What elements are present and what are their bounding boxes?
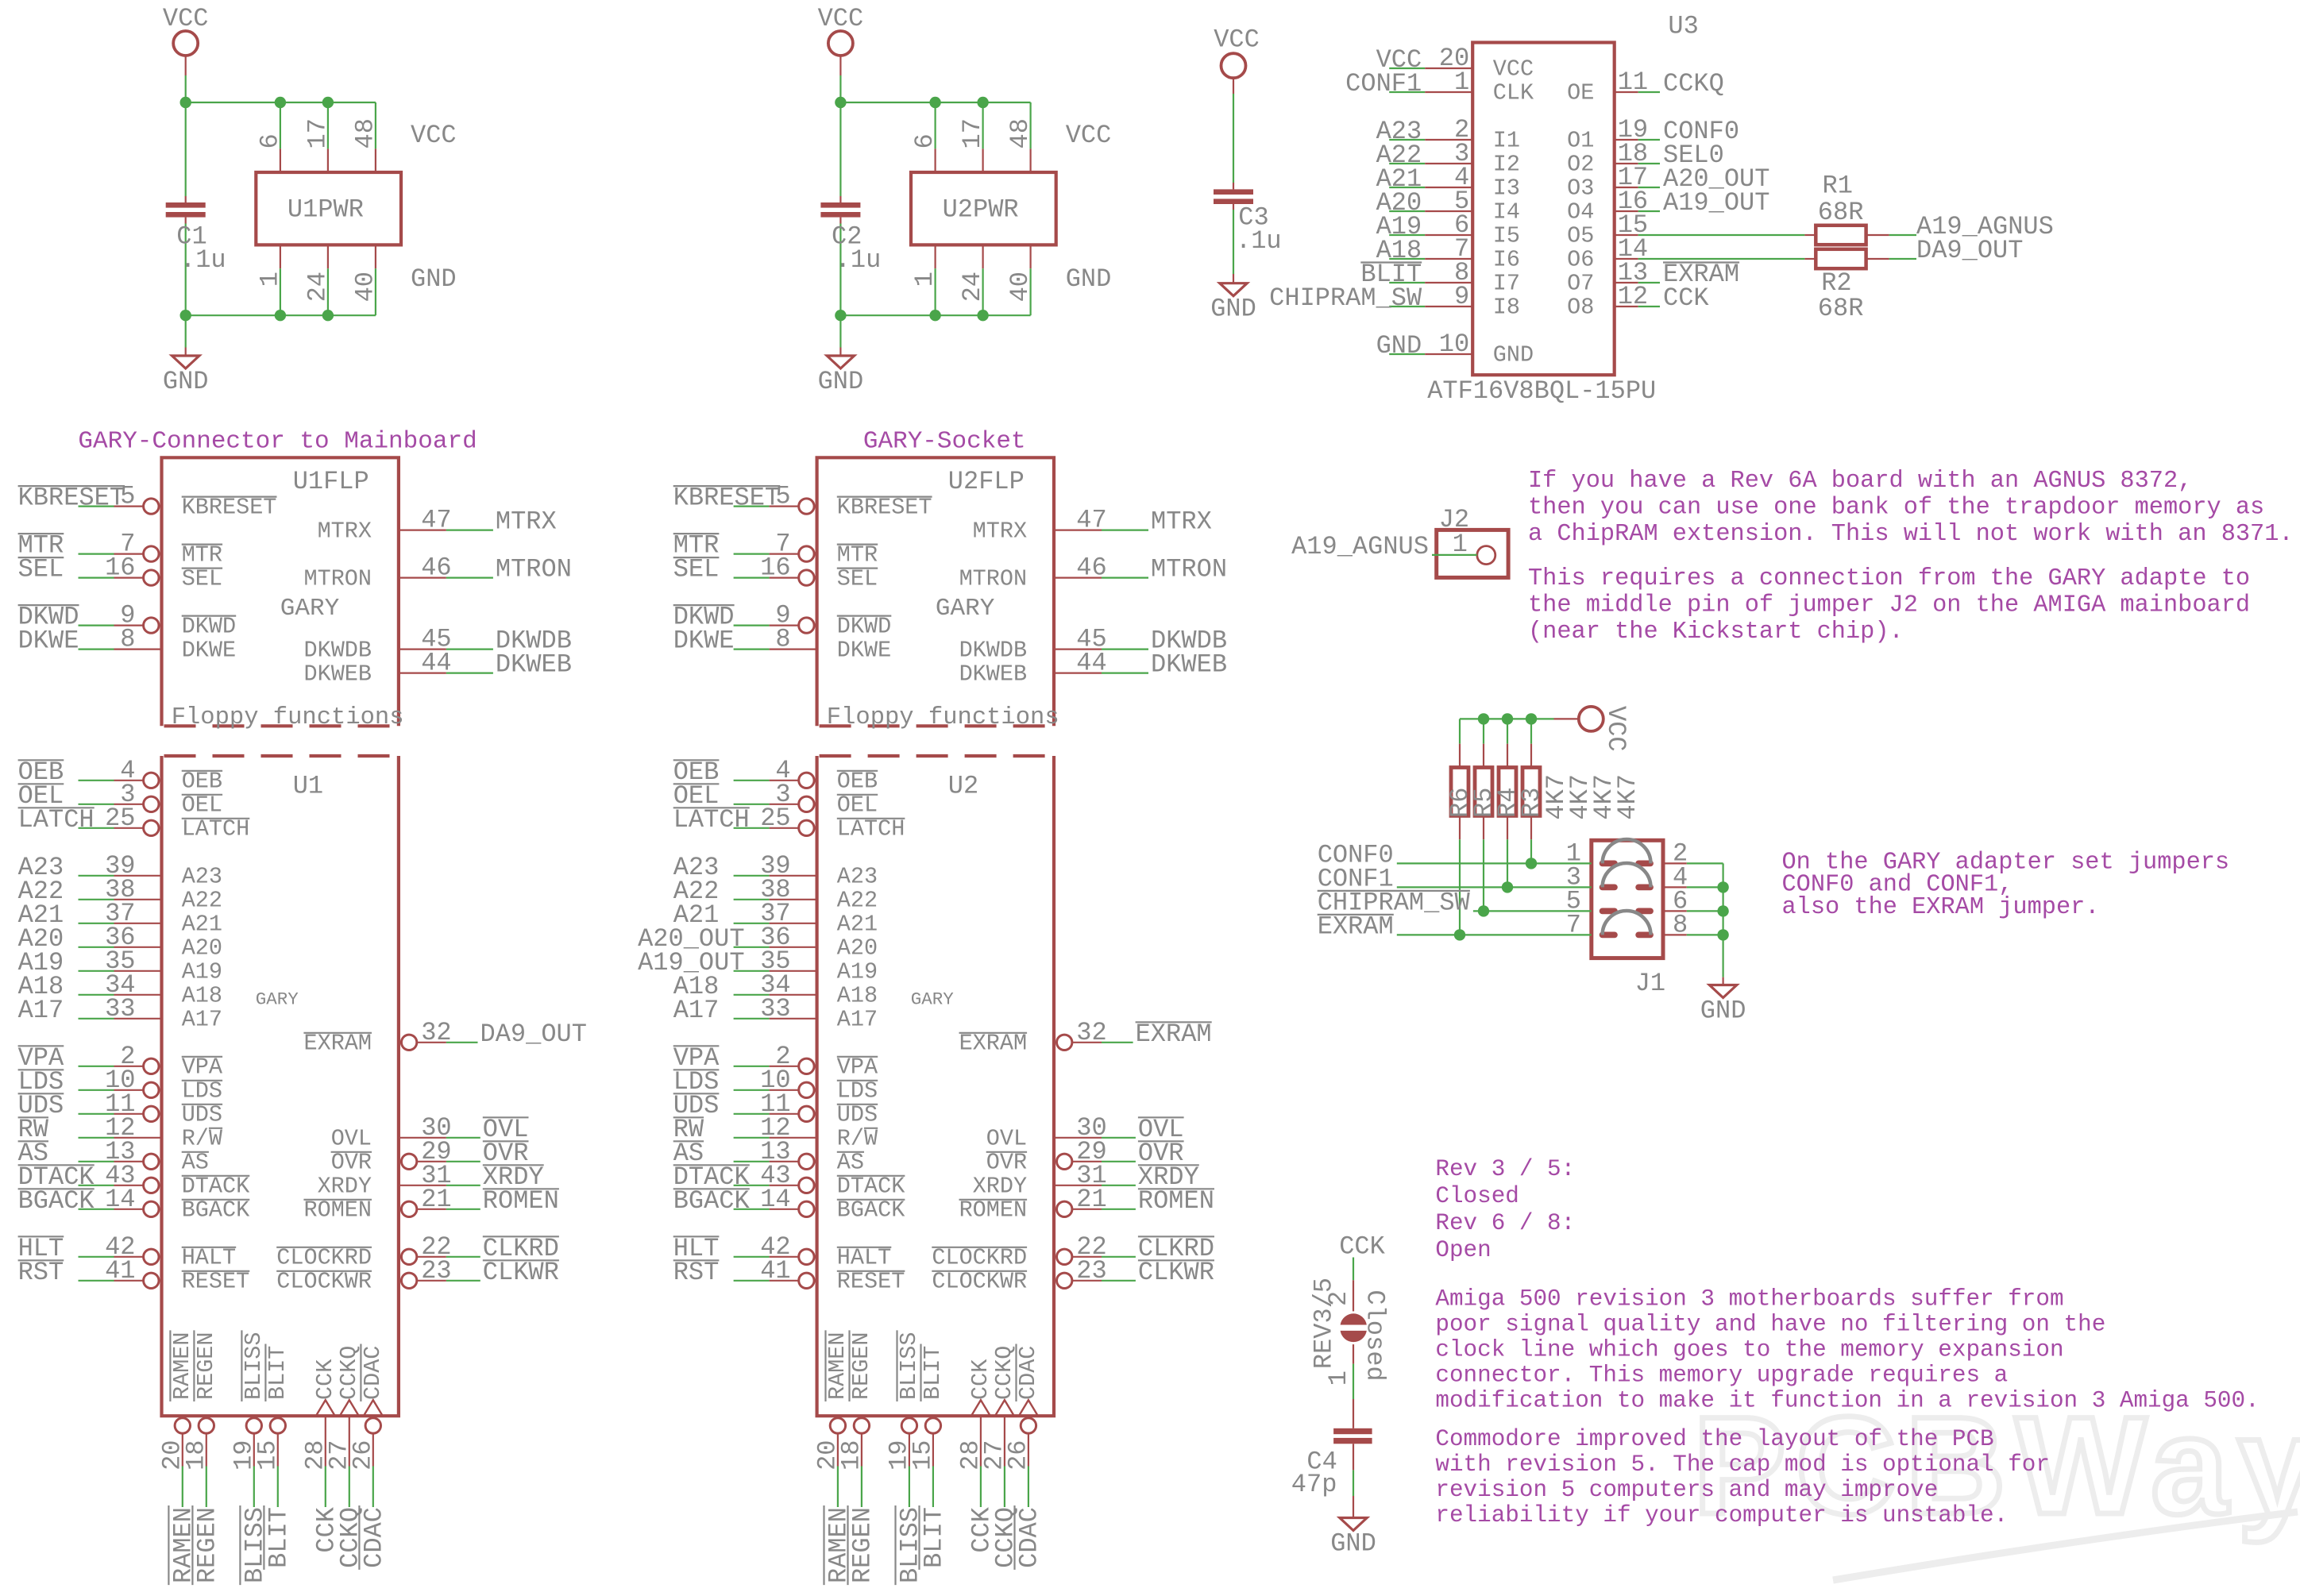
- svg-text:a ChipRAM extension. This will: a ChipRAM extension. This will not work …: [1528, 521, 2294, 548]
- svg-text:This requires a connection fro: This requires a connection from the GARY…: [1528, 565, 2250, 592]
- svg-text:GND: GND: [1376, 331, 1422, 360]
- wire top rail: [186, 102, 376, 103]
- U2 pin 11 UDS: [734, 1113, 770, 1115]
- svg-text:23: 23: [1076, 1256, 1106, 1286]
- wire rail to pin: [982, 102, 983, 148]
- svg-text:DKWEB: DKWEB: [1151, 650, 1227, 680]
- svg-text:VCC: VCC: [818, 4, 864, 33]
- U3 pin 16 A19_OUT: [1615, 210, 1638, 212]
- U1 pin 16 SEL: [79, 576, 114, 578]
- U3 pin 8 BLIT: [1389, 282, 1425, 283]
- U3 pin 6 A19: [1389, 234, 1425, 236]
- wire pin to bottom rail: [1029, 268, 1031, 315]
- U1 pin 32 DA9_OUT: [401, 1035, 416, 1050]
- svg-text:47: 47: [421, 506, 451, 535]
- svg-text:6: 6: [255, 133, 284, 148]
- svg-text:U2PWR: U2PWR: [943, 195, 1019, 224]
- svg-text:CCK: CCK: [312, 1359, 338, 1400]
- clock triangle: [1019, 1400, 1038, 1416]
- svg-text:A20: A20: [837, 935, 878, 962]
- svg-text:68R: 68R: [1818, 294, 1864, 323]
- U1 pin 11 UDS: [79, 1113, 114, 1115]
- IC U1 (GARY main): [162, 756, 399, 1416]
- svg-text:GND: GND: [1066, 264, 1112, 294]
- svg-text:O2: O2: [1567, 152, 1594, 178]
- svg-text:48: 48: [1005, 118, 1035, 148]
- U2 pin 39 A23: [734, 875, 770, 877]
- U2 pin 30 OVL: [1054, 1137, 1102, 1139]
- svg-text:A19: A19: [182, 959, 222, 985]
- svg-text:OEB: OEB: [182, 769, 222, 795]
- svg-text:44: 44: [421, 649, 451, 678]
- U2 pin 25 LATCH: [734, 827, 770, 829]
- svg-text:A19_AGNUS: A19_AGNUS: [1291, 532, 1429, 561]
- U1 pin 44 DKWEB: [399, 672, 446, 673]
- wire CCK to REV3/5: [1353, 1258, 1354, 1281]
- svg-text:BGACK: BGACK: [673, 1186, 751, 1216]
- svg-text:VPA: VPA: [182, 1054, 223, 1081]
- svg-text:RAMEN: RAMEN: [169, 1332, 195, 1400]
- svg-text:KBRESET: KBRESET: [18, 484, 125, 513]
- svg-text:I8: I8: [1493, 295, 1520, 321]
- svg-text:I5: I5: [1493, 223, 1520, 249]
- U3 pin 2 A23: [1389, 139, 1425, 141]
- svg-text:GARY-Connector to Mainboard: GARY-Connector to Mainboard: [78, 428, 477, 456]
- svg-text:MTR: MTR: [837, 542, 878, 568]
- pin stub top: [327, 148, 329, 172]
- U2 pin 12 RW: [734, 1137, 770, 1139]
- U1 pin 22 CLKRD: [401, 1249, 416, 1264]
- svg-text:17: 17: [303, 118, 332, 148]
- svg-text:CLOCKWR: CLOCKWR: [932, 1269, 1027, 1295]
- svg-text:DKWEB: DKWEB: [303, 661, 372, 687]
- wire rail to pin: [375, 102, 376, 148]
- svg-text:MTRON: MTRON: [959, 565, 1028, 592]
- U2 pin 43 DTACK: [734, 1185, 770, 1186]
- svg-text:RAMEN: RAMEN: [824, 1332, 851, 1400]
- U2 pin 19 BLISS: [901, 1418, 917, 1433]
- U1 pin 4 OEB: [79, 780, 114, 781]
- U2 pin 13 AS: [734, 1161, 770, 1162]
- svg-text:DKWDB: DKWDB: [959, 637, 1028, 663]
- svg-text:U2: U2: [948, 772, 978, 801]
- ground (C3): [1220, 283, 1247, 296]
- svg-text:MTRON: MTRON: [496, 555, 572, 584]
- svg-text:CLK: CLK: [1493, 80, 1534, 106]
- U2 pin 23 CLKWR: [1057, 1273, 1072, 1288]
- svg-text:GARY: GARY: [256, 989, 299, 1010]
- svg-text:GARY: GARY: [280, 595, 340, 623]
- svg-text:CDAC: CDAC: [1015, 1346, 1041, 1400]
- svg-text:CDAC: CDAC: [359, 1507, 388, 1568]
- J1 pins 5/6 pads: [1600, 908, 1618, 915]
- U1 pin 18 REGEN: [199, 1418, 214, 1433]
- svg-text:47p: 47p: [1291, 1470, 1337, 1499]
- U1 pin 39 A23: [79, 875, 114, 877]
- svg-text:MTRON: MTRON: [1151, 555, 1227, 584]
- U1 pin 12 RW: [79, 1137, 114, 1139]
- wire REV3/5 to C4: [1353, 1344, 1354, 1364]
- svg-text:1: 1: [1324, 1370, 1353, 1386]
- U3 pin 18 SEL0: [1615, 163, 1638, 164]
- svg-text:RESET: RESET: [182, 1269, 250, 1295]
- svg-text:GARY: GARY: [936, 595, 995, 623]
- svg-text:EXRAM: EXRAM: [1318, 912, 1394, 941]
- power block U1PWR: [256, 172, 401, 245]
- svg-text:Rev 3 / 5:: Rev 3 / 5:: [1435, 1156, 1575, 1182]
- node junction CONF0 R3: [1526, 858, 1537, 869]
- svg-text:46: 46: [421, 553, 451, 583]
- svg-text:OEL: OEL: [182, 792, 222, 819]
- svg-text:GND: GND: [163, 367, 209, 396]
- U1 pin 7 MTR: [79, 553, 114, 554]
- svg-text:I7: I7: [1493, 271, 1520, 297]
- svg-text:BGACK: BGACK: [18, 1186, 95, 1216]
- U2 pin 10 LDS: [734, 1089, 770, 1091]
- wire bottom rail to ground: [839, 315, 841, 347]
- svg-text:CCKQ: CCKQ: [336, 1346, 362, 1400]
- pin stub top: [934, 148, 936, 172]
- svg-text:HALT: HALT: [182, 1245, 236, 1271]
- svg-text:EXRAM: EXRAM: [959, 1031, 1028, 1057]
- clock triangle: [364, 1400, 383, 1416]
- svg-text:MTRON: MTRON: [303, 565, 372, 592]
- svg-text:A19_OUT: A19_OUT: [1663, 188, 1769, 218]
- U2 pin 16 SEL: [734, 576, 770, 578]
- U1 pin 2 VPA: [79, 1066, 114, 1067]
- U2 pin 33 A17: [734, 1018, 770, 1020]
- J1 pins 7/8 pads: [1600, 932, 1618, 939]
- capacitor C4 47p: [1333, 1428, 1372, 1434]
- U2 pin 47 MTRX: [1054, 529, 1102, 530]
- wire J1 right: [1663, 934, 1687, 935]
- svg-text:UDS: UDS: [182, 1102, 222, 1128]
- svg-text:VCC: VCC: [1493, 56, 1534, 83]
- wire C4 to ground: [1353, 1444, 1354, 1470]
- svg-text:GND: GND: [1700, 997, 1746, 1026]
- U2 pin 42 HLT: [734, 1256, 770, 1258]
- ground (C2): [827, 356, 854, 368]
- svg-text:OEB: OEB: [837, 769, 878, 795]
- svg-text:6: 6: [910, 133, 940, 148]
- node junction EXRAM R6: [1454, 929, 1465, 940]
- svg-text:MTRX: MTRX: [318, 518, 372, 544]
- svg-text:8: 8: [120, 625, 135, 654]
- U2 pin 34 A18: [734, 994, 770, 996]
- svg-text:I6: I6: [1493, 247, 1520, 273]
- IC U2FLP (floppy part of GARY): [817, 457, 1054, 726]
- svg-text:DKWEB: DKWEB: [959, 661, 1028, 687]
- svg-text:SEL: SEL: [837, 565, 878, 592]
- capacitor C2 .1u: [839, 102, 841, 196]
- svg-text:SEL: SEL: [18, 555, 64, 584]
- node junction bottom rail pin 24: [322, 310, 334, 321]
- pin stub top: [982, 148, 983, 172]
- svg-text:15: 15: [253, 1440, 282, 1471]
- svg-text:Rev 6 / 8:: Rev 6 / 8:: [1435, 1210, 1575, 1236]
- svg-text:14: 14: [105, 1185, 135, 1214]
- U2 pin 22 CLKRD: [1057, 1249, 1072, 1264]
- resistor R2 68R: [1804, 258, 1816, 260]
- svg-text:LDS: LDS: [837, 1078, 878, 1104]
- wire pin to bottom rail: [375, 268, 376, 315]
- U2 pin 9 DKWD: [734, 624, 770, 626]
- svg-text:OVL: OVL: [986, 1126, 1027, 1152]
- node junction VCC R5: [1478, 713, 1489, 724]
- wire J1 right bus to ground: [1723, 863, 1724, 977]
- node junction VCC R3: [1526, 713, 1537, 724]
- U1 pin 14 BGACK: [79, 1209, 114, 1210]
- svg-text:U2FLP: U2FLP: [948, 467, 1025, 496]
- svg-text:AS: AS: [182, 1150, 209, 1176]
- clock triangle: [971, 1400, 990, 1416]
- node junction CHIPRAM_SW R5: [1478, 905, 1489, 916]
- svg-text:41: 41: [105, 1256, 135, 1286]
- IC U2 (GARY main): [817, 756, 1054, 1416]
- svg-text:XRDY: XRDY: [973, 1174, 1027, 1200]
- svg-text:12: 12: [1618, 282, 1648, 311]
- resistor R5 4K7: [1483, 719, 1484, 743]
- U2 pin 38 A22: [734, 899, 770, 900]
- node junction bus row8: [1717, 929, 1728, 940]
- svg-text:modification to make it functi: modification to make it function in a re…: [1435, 1388, 2259, 1414]
- ground (J1): [1709, 985, 1736, 998]
- J1 pins 3/4 pads: [1600, 885, 1618, 891]
- wire C3 to ground: [1233, 274, 1234, 283]
- svg-text:KBRESET: KBRESET: [182, 494, 277, 520]
- U1 pin 23 CLKWR: [401, 1273, 416, 1288]
- svg-text:RST: RST: [673, 1258, 720, 1287]
- wire J1 right: [1663, 886, 1687, 888]
- svg-text:CLOCKRD: CLOCKRD: [932, 1245, 1027, 1271]
- resistor R6 4K7: [1459, 719, 1461, 743]
- U3 pin 15: [1615, 234, 1638, 236]
- wire CONF1 to J1: [1397, 886, 1592, 888]
- U1 pin 25 LATCH: [79, 827, 114, 829]
- U1 pin 42 HLT: [79, 1256, 114, 1258]
- node junction top rail pin 6: [275, 97, 286, 108]
- svg-text:LATCH: LATCH: [673, 805, 750, 835]
- svg-text:Commodore improved the layout: Commodore improved the layout of the PCB: [1435, 1426, 1993, 1452]
- U2 pin 18 REGEN: [854, 1418, 869, 1433]
- svg-text:also the EXRAM jumper.: also the EXRAM jumper.: [1782, 894, 2100, 921]
- node junction bottom rail pin 24: [977, 310, 988, 321]
- svg-text:21: 21: [421, 1185, 451, 1214]
- U2 pin 37 A21: [734, 923, 770, 924]
- svg-text:A21: A21: [182, 912, 222, 938]
- svg-text:16: 16: [105, 553, 135, 583]
- svg-text:GARY-Socket: GARY-Socket: [863, 428, 1026, 456]
- wire bottom rail: [186, 314, 376, 316]
- svg-text:A17: A17: [18, 996, 64, 1025]
- svg-text:I2: I2: [1493, 152, 1520, 178]
- J1 pins 1/2 pads: [1600, 861, 1618, 867]
- svg-text:U1FLP: U1FLP: [293, 467, 369, 496]
- U2 pin 15 BLIT: [925, 1418, 940, 1433]
- wire J1 right: [1663, 862, 1687, 864]
- svg-text:18: 18: [836, 1440, 866, 1471]
- resistor R1 68R: [1804, 234, 1816, 236]
- svg-text:8: 8: [775, 625, 790, 654]
- node junction VCC R4: [1502, 713, 1513, 724]
- clock triangle: [995, 1400, 1014, 1416]
- U1 pin 43 DTACK: [79, 1185, 114, 1186]
- jumper cap arc: [1603, 839, 1651, 863]
- svg-text:21: 21: [1076, 1185, 1106, 1214]
- svg-text:REGEN: REGEN: [848, 1507, 878, 1583]
- svg-text:CCK: CCK: [1339, 1232, 1385, 1262]
- svg-text:CONF1: CONF1: [1345, 69, 1422, 98]
- wire CHIPRAM_SW to J1: [1473, 910, 1592, 912]
- U2 pin 3 OEL: [734, 804, 770, 805]
- VCC symbol (J1 pull-ups): [1579, 707, 1603, 731]
- U3 pin 13 EXRAM: [1615, 282, 1638, 283]
- IC U3 ATF16V8BQL-15PU: [1472, 43, 1615, 376]
- U2 pin 7 MTR: [734, 553, 770, 554]
- svg-text:BLIT: BLIT: [920, 1346, 946, 1400]
- svg-text:DTACK: DTACK: [182, 1174, 250, 1200]
- svg-text:I4: I4: [1493, 199, 1520, 226]
- svg-text:CCKQ: CCKQ: [991, 1346, 1017, 1400]
- svg-text:A22: A22: [182, 888, 222, 914]
- svg-text:O4: O4: [1567, 199, 1594, 226]
- U1 pin 20 RAMEN: [175, 1418, 190, 1433]
- U2 pin 44 DKWEB: [1054, 672, 1102, 673]
- svg-text:17: 17: [958, 118, 987, 148]
- svg-text:GND: GND: [1493, 342, 1534, 368]
- svg-text:GND: GND: [1210, 295, 1256, 324]
- wire rail to pin: [1029, 102, 1031, 148]
- svg-text:poor signal quality and have n: poor signal quality and have no filterin…: [1435, 1312, 2105, 1338]
- svg-text:10: 10: [1439, 330, 1469, 359]
- resistor R4 4K7: [1507, 719, 1508, 743]
- svg-text:25: 25: [105, 804, 135, 833]
- svg-text:the middle pin of jumper J2 on: the middle pin of jumper J2 on the AMIGA…: [1528, 592, 2250, 619]
- wire pin to bottom rail: [327, 268, 329, 315]
- svg-text:BLISS: BLISS: [241, 1332, 267, 1400]
- svg-text:RST: RST: [18, 1258, 64, 1287]
- node junction bus row4: [1717, 881, 1728, 892]
- svg-text:DKWE: DKWE: [673, 626, 735, 656]
- svg-text:KBRESET: KBRESET: [837, 494, 932, 520]
- node junction top rail pin 17: [977, 97, 988, 108]
- U3 pin 14: [1615, 258, 1638, 260]
- svg-text:32: 32: [421, 1018, 451, 1047]
- svg-text:VCC: VCC: [411, 121, 457, 150]
- capacitor C3 .1u: [1233, 183, 1234, 189]
- svg-text:SEL: SEL: [673, 555, 720, 584]
- svg-text:LATCH: LATCH: [182, 816, 250, 842]
- svg-text:revision 5 computers and may i: revision 5 computers and may improve: [1435, 1477, 1938, 1503]
- svg-text:47: 47: [1076, 506, 1106, 535]
- svg-text:U3: U3: [1668, 11, 1698, 40]
- svg-text:DTACK: DTACK: [837, 1174, 905, 1200]
- pin stub top: [280, 148, 281, 172]
- wire pin to bottom rail: [982, 268, 983, 315]
- svg-text:O1: O1: [1567, 128, 1594, 154]
- svg-text:A21: A21: [837, 912, 878, 938]
- ground (C1): [172, 356, 199, 368]
- svg-text:CLKWR: CLKWR: [483, 1258, 559, 1287]
- svg-text:ROMEN: ROMEN: [959, 1197, 1028, 1224]
- svg-text:DKWE: DKWE: [18, 626, 79, 656]
- wire VCC to top rail: [839, 56, 841, 75]
- svg-text:Floppy functions: Floppy functions: [827, 704, 1059, 731]
- svg-text:CCK: CCK: [1663, 283, 1709, 313]
- svg-text:ROMEN: ROMEN: [303, 1197, 372, 1224]
- clock triangle: [340, 1400, 359, 1416]
- svg-text:If you have a Rev 6A board wit: If you have a Rev 6A board with an AGNUS…: [1528, 468, 2192, 495]
- svg-text:11: 11: [1618, 67, 1648, 97]
- svg-text:32: 32: [1076, 1018, 1106, 1047]
- svg-text:CDAC: CDAC: [1015, 1507, 1044, 1568]
- U1 pin 47 MTRX: [399, 529, 446, 530]
- U2 pin 31 XRDY: [1054, 1185, 1102, 1186]
- pin stub top: [375, 148, 376, 172]
- svg-text:CDAC: CDAC: [360, 1346, 386, 1400]
- node junction bottom rail pin 1: [929, 310, 940, 321]
- pin stub bottom: [327, 245, 329, 268]
- svg-text:Amiga 500 revision 3 motherboa: Amiga 500 revision 3 motherboards suffer…: [1435, 1286, 2063, 1313]
- U1 pin 5 KBRESET: [79, 505, 114, 507]
- svg-text:A17: A17: [837, 1007, 878, 1033]
- svg-text:A22: A22: [837, 888, 878, 914]
- svg-text:EXRAM: EXRAM: [1136, 1020, 1212, 1049]
- svg-text:.1u: .1u: [1236, 226, 1282, 256]
- pin stub top: [1029, 148, 1031, 172]
- wire top rail: [840, 102, 1030, 103]
- node junction top rail pin 6: [929, 97, 940, 108]
- U1 pin 33 A17: [79, 1018, 114, 1020]
- svg-text:15: 15: [908, 1440, 937, 1471]
- U1 pin 10 LDS: [79, 1089, 114, 1091]
- svg-text:with revision 5. The cap mod i: with revision 5. The cap mod is optional…: [1435, 1451, 2050, 1478]
- svg-text:CLOCKRD: CLOCKRD: [276, 1245, 372, 1271]
- svg-text:RESET: RESET: [837, 1269, 905, 1295]
- svg-text:then you can use one bank of t: then you can use one bank of the trapdoo…: [1528, 494, 2264, 521]
- wire rail to pin: [934, 102, 936, 148]
- svg-text:68R: 68R: [1818, 198, 1864, 227]
- wire J1 right: [1663, 910, 1687, 912]
- svg-text:O8: O8: [1567, 295, 1594, 321]
- svg-text:A17: A17: [182, 1007, 222, 1033]
- svg-text:LATCH: LATCH: [18, 805, 95, 835]
- U3 pin 1 CONF1: [1389, 91, 1425, 93]
- svg-text:A18: A18: [182, 983, 222, 1009]
- svg-text:VCC: VCC: [1214, 25, 1260, 55]
- svg-text:O3: O3: [1567, 175, 1594, 202]
- connector J1: [1592, 840, 1663, 958]
- svg-text:OVR: OVR: [986, 1150, 1027, 1176]
- U1 pin 34 A18: [79, 994, 114, 996]
- pin stub bottom: [934, 245, 936, 268]
- svg-text:14: 14: [760, 1185, 790, 1214]
- svg-text:18: 18: [181, 1440, 210, 1471]
- U1 pin 19 BLISS: [246, 1418, 261, 1433]
- svg-text:I1: I1: [1493, 128, 1520, 154]
- svg-text:CCKQ: CCKQ: [1663, 69, 1724, 98]
- wire A19_AGNUS to J2: [1432, 554, 1477, 556]
- U2 pin 36 A20_OUT: [734, 946, 770, 948]
- svg-text:.1u: .1u: [180, 245, 226, 275]
- U2 pin 8 DKWE: [734, 648, 770, 650]
- wire VCC to C3: [1233, 78, 1234, 94]
- svg-text:A23: A23: [182, 864, 222, 890]
- svg-text:46: 46: [1076, 553, 1106, 583]
- svg-text:CCK: CCK: [967, 1359, 994, 1400]
- svg-text:BGACK: BGACK: [182, 1197, 250, 1224]
- U1 pin 3 OEL: [79, 804, 114, 805]
